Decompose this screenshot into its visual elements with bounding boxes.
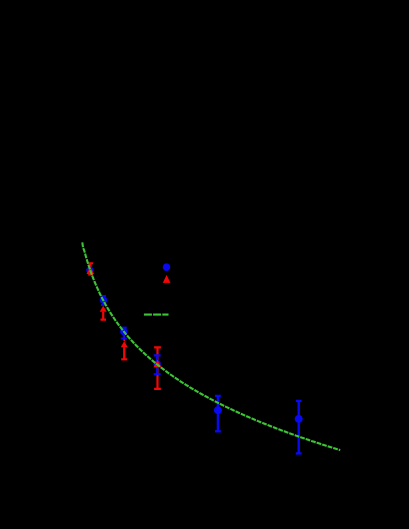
red upper-limit arrow R2 [101, 312, 107, 320]
red error bar R4 [154, 347, 161, 389]
blue error bar B4 [154, 355, 161, 374]
blue error bar B5 [215, 396, 221, 431]
blue error bar B6 [296, 401, 302, 454]
legend marker: green dashed line [144, 314, 169, 316]
blue error bar B3 [121, 328, 127, 339]
green dashed fit curve [82, 242, 340, 450]
red triangle marker R1 [87, 267, 95, 274]
blue error bar B2 [101, 296, 106, 305]
legend marker: red triangle [163, 275, 171, 283]
blue data point B1 [86, 267, 93, 274]
legend marker: blue data point [163, 263, 171, 271]
blue data point B4 [154, 360, 161, 367]
blue data point B2 [100, 297, 107, 304]
red triangle marker R4 [154, 360, 162, 367]
red upper-limit arrow R3 [123, 333, 125, 341]
red error bar R1 [88, 263, 93, 274]
blue data point B5 [214, 406, 222, 414]
blue data point B3 [120, 328, 127, 335]
blue data point B6 [295, 415, 303, 423]
